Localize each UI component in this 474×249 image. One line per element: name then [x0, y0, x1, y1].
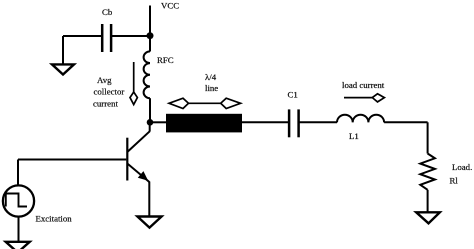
- svg-text:λ/4: λ/4: [205, 72, 217, 82]
- svg-text:RFC: RFC: [157, 55, 174, 65]
- svg-text:load current: load current: [342, 80, 385, 90]
- svg-text:Excitation: Excitation: [36, 214, 73, 224]
- svg-text:Load.: Load.: [452, 162, 472, 172]
- svg-text:Avg: Avg: [97, 75, 112, 85]
- svg-text:VCC: VCC: [161, 1, 179, 11]
- svg-text:L1: L1: [349, 131, 359, 141]
- svg-text:collector: collector: [94, 87, 125, 97]
- svg-text:Cb: Cb: [102, 7, 113, 17]
- svg-text:Rl: Rl: [450, 176, 459, 186]
- svg-text:line: line: [205, 83, 218, 93]
- svg-text:C1: C1: [288, 90, 298, 100]
- svg-text:current: current: [93, 99, 118, 109]
